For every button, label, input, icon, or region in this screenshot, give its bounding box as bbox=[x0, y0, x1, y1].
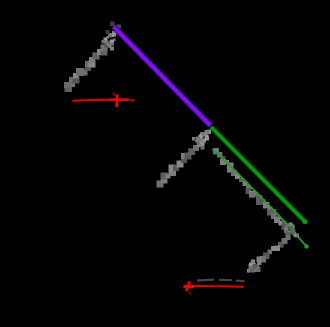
gray specks at purple tip bbox=[106, 22, 122, 35]
red arrow R1 head top nub bbox=[113, 93, 115, 96]
purple line P glow bbox=[114, 27, 211, 126]
red arrow R2 faint tail below head bbox=[189, 291, 191, 295]
green line G1 glow bbox=[211, 127, 306, 223]
red arrow R1 shaft bbox=[73, 100, 127, 101]
red arrow R1 tip blob bbox=[129, 98, 135, 101]
faint gray stroke above R2 a bbox=[197, 279, 214, 282]
red arrow R2 head bright shaft bbox=[184, 285, 195, 288]
gray arrow A3 shaft bbox=[213, 148, 255, 198]
gray arrow A4 head fill bbox=[253, 264, 258, 269]
gray arrow A1 head bbox=[102, 31, 117, 51]
faint gray stroke above R2 b bbox=[219, 279, 232, 282]
gray arrow A1 shaft bbox=[64, 40, 111, 91]
gray arrow A4 shaft bbox=[257, 231, 291, 265]
gray arrow A1 tail blob bbox=[64, 82, 70, 88]
green line G2 bbox=[213, 149, 308, 247]
gray arrow A2 head bbox=[192, 130, 211, 150]
red arrow R2 shaft bbox=[188, 285, 244, 288]
gray arrow A3 head bbox=[284, 222, 299, 237]
red arrow R1 head crossbar bbox=[115, 95, 118, 108]
gray arrow A4 head bbox=[247, 260, 261, 273]
red arrow R2 head crossbar bbox=[187, 282, 190, 292]
green line G1 end blob bbox=[303, 219, 308, 224]
green line G2 overlay through knot bbox=[276, 213, 296, 234]
red arrow R1 head bright shaft bbox=[111, 98, 129, 101]
gray arrow A3 head fill bbox=[288, 226, 293, 231]
gray arrow A2 shaft bbox=[157, 136, 204, 187]
green line G1 bbox=[211, 127, 306, 223]
purple line P bbox=[114, 27, 211, 126]
faint gray stroke above R2 c bbox=[236, 280, 245, 283]
green line G2 end dot bbox=[304, 244, 308, 248]
